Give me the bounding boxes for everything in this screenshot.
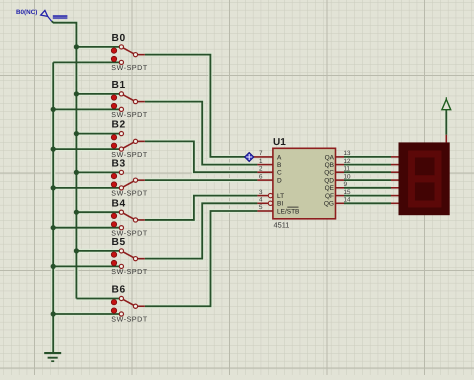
svg-text:BI: BI bbox=[277, 201, 283, 208]
svg-text:1: 1 bbox=[259, 158, 263, 165]
wire U1 QC to display bbox=[344, 171, 391, 173]
svg-text:5: 5 bbox=[259, 204, 263, 211]
U1 input pin 7 (A) bbox=[253, 156, 273, 158]
wire bus1 to B3 top throw bbox=[76, 171, 119, 173]
svg-text:B0: B0 bbox=[112, 33, 126, 44]
ground bbox=[44, 353, 61, 361]
wire bus2 to B2 bottom throw bbox=[53, 148, 119, 150]
svg-text:12: 12 bbox=[344, 158, 352, 165]
svg-text:SW-SPDT: SW-SPDT bbox=[111, 190, 148, 198]
svg-text:SW-SPDT: SW-SPDT bbox=[111, 268, 148, 276]
switch B2 (SW-SPDT) bbox=[111, 120, 148, 159]
svg-text:B0(NC): B0(NC) bbox=[16, 9, 37, 16]
svg-text:C: C bbox=[277, 170, 282, 177]
svg-text:SW-SPDT: SW-SPDT bbox=[111, 64, 148, 72]
display pin stub QG bbox=[391, 202, 399, 204]
display pin stub QB bbox=[391, 164, 399, 166]
svg-text:7: 7 bbox=[259, 150, 263, 157]
switch B1 (SW-SPDT) bbox=[111, 80, 148, 119]
7-segment display body bbox=[399, 142, 450, 215]
svg-text:13: 13 bbox=[344, 150, 352, 157]
wire bus2 to B4 bottom throw bbox=[53, 227, 119, 229]
svg-text:14: 14 bbox=[344, 197, 352, 204]
wire bus1 to B6 top throw bbox=[76, 298, 119, 300]
display pin stub QF bbox=[391, 195, 399, 197]
junction dots on bus line 1 bbox=[74, 44, 79, 253]
svg-text:U1: U1 bbox=[273, 137, 286, 148]
wire bus2 to B1 bottom throw bbox=[53, 108, 119, 110]
node marker (blue diamond) on pin A wire bbox=[244, 152, 254, 162]
wire bus2 to B3 bottom throw bbox=[53, 187, 119, 189]
svg-text:QB: QB bbox=[325, 162, 334, 169]
U1 output pin 15 (QF) bbox=[336, 195, 345, 197]
wire bus line 2 (bottom throws to ground) bbox=[52, 62, 54, 352]
tiny blue sub-label bbox=[53, 15, 68, 18]
U1 input pin 3 (LT) bbox=[257, 195, 268, 197]
switch B0 (SW-SPDT) bbox=[111, 33, 148, 72]
power terminal arrow bbox=[445, 97, 447, 100]
svg-text:6: 6 bbox=[259, 173, 263, 180]
svg-text:B2: B2 bbox=[112, 120, 126, 131]
wire halo layer bbox=[52, 21, 447, 352]
switch B6 (SW-SPDT) bbox=[111, 285, 148, 324]
svg-text:SW-SPDT: SW-SPDT bbox=[111, 316, 148, 324]
svg-text:QF: QF bbox=[325, 193, 334, 200]
U1 output pin 9 (QE) bbox=[336, 187, 345, 189]
wire B1 pole to U1 input bbox=[145, 102, 258, 165]
svg-text:B6: B6 bbox=[112, 285, 126, 296]
wire bus line 1 (from B0(NC) label, top throws) bbox=[52, 21, 77, 298]
wire U1 QE to display bbox=[344, 187, 391, 189]
wire bus2 to B6 bottom throw bbox=[53, 313, 119, 315]
wire B3 pole to U1 input bbox=[145, 179, 258, 181]
U1 input pin 2 (C) bbox=[257, 171, 273, 173]
U1 input pin 1 (B) bbox=[257, 164, 273, 166]
display pin stub QE bbox=[391, 187, 399, 189]
switch B3 (SW-SPDT) bbox=[111, 159, 148, 198]
wire bus1 to B1 top throw bbox=[76, 93, 119, 95]
wire B4 pole to U1 input bbox=[145, 196, 258, 220]
svg-text:11: 11 bbox=[344, 165, 351, 172]
wire B2 pole to U1 input bbox=[145, 141, 258, 172]
wire bus1 to B0 top throw bbox=[76, 46, 119, 48]
svg-text:QA: QA bbox=[325, 154, 335, 161]
wire U1 QG to display bbox=[344, 202, 391, 204]
wire bus1 to B2 top throw bbox=[76, 133, 119, 135]
display pin stub QC bbox=[391, 171, 399, 173]
display power pin stub bbox=[445, 135, 447, 143]
U1 output pin 10 (QD) bbox=[336, 179, 345, 181]
junction dots on bus line 2 bbox=[51, 107, 56, 317]
svg-text:3: 3 bbox=[259, 189, 263, 196]
switch B4 (SW-SPDT) bbox=[111, 198, 148, 237]
wire power terminal to display bbox=[445, 110, 447, 135]
svg-text:B1: B1 bbox=[112, 80, 126, 91]
wire U1 QA to display bbox=[344, 156, 391, 158]
svg-text:9: 9 bbox=[344, 181, 348, 188]
U1 output pin 11 (QC) bbox=[336, 171, 345, 173]
svg-text:10: 10 bbox=[344, 173, 352, 180]
wire U1 QF to display bbox=[344, 195, 391, 197]
wire B5 pole to U1 input bbox=[145, 203, 258, 258]
wire bus2 to B0 bottom throw bbox=[53, 61, 119, 63]
svg-text:QC: QC bbox=[324, 170, 334, 177]
wire bus1 to B5 top throw bbox=[76, 250, 119, 252]
svg-text:QD: QD bbox=[324, 178, 334, 185]
display digit 8 segments bbox=[412, 154, 439, 204]
U1 output pin 13 (QA) bbox=[336, 156, 345, 158]
U1 input pin 5 (LE) bbox=[257, 210, 273, 212]
wire U1 QB to display bbox=[344, 164, 391, 166]
svg-text:QG: QG bbox=[324, 201, 334, 208]
U1 input pin 4 (BI) bbox=[257, 202, 268, 204]
svg-text:A: A bbox=[277, 154, 282, 161]
svg-text:QE: QE bbox=[325, 185, 335, 192]
U1 output pin 12 (QB) bbox=[336, 164, 345, 166]
svg-text:LE/STB: LE/STB bbox=[277, 208, 299, 215]
IC U1 4511 body bbox=[273, 148, 336, 219]
svg-text:15: 15 bbox=[344, 189, 352, 196]
wire bus2 to B5 bottom throw bbox=[53, 265, 119, 267]
svg-text:B3: B3 bbox=[112, 159, 126, 170]
wire bus1 to B4 top throw bbox=[76, 211, 119, 213]
svg-text:D: D bbox=[277, 178, 282, 185]
wire U1 QD to display bbox=[344, 179, 391, 181]
svg-text:B5: B5 bbox=[112, 237, 126, 248]
switch B5 (SW-SPDT) bbox=[111, 237, 148, 276]
svg-text:LT: LT bbox=[277, 193, 284, 200]
svg-text:2: 2 bbox=[259, 165, 263, 172]
svg-text:4: 4 bbox=[259, 197, 263, 204]
U1 output pin 14 (QG) bbox=[336, 202, 345, 204]
display pin stub QD bbox=[391, 179, 399, 181]
svg-text:4511: 4511 bbox=[274, 221, 290, 230]
display pin stub QA bbox=[391, 156, 399, 158]
wire B6 pole to U1 input bbox=[145, 211, 258, 306]
svg-text:B4: B4 bbox=[112, 198, 126, 209]
U1 input pin 6 (D) bbox=[257, 179, 273, 181]
svg-text:B: B bbox=[277, 162, 281, 169]
svg-text:SW-SPDT: SW-SPDT bbox=[111, 111, 148, 119]
wire B0 pole to U1 input bbox=[145, 55, 253, 157]
